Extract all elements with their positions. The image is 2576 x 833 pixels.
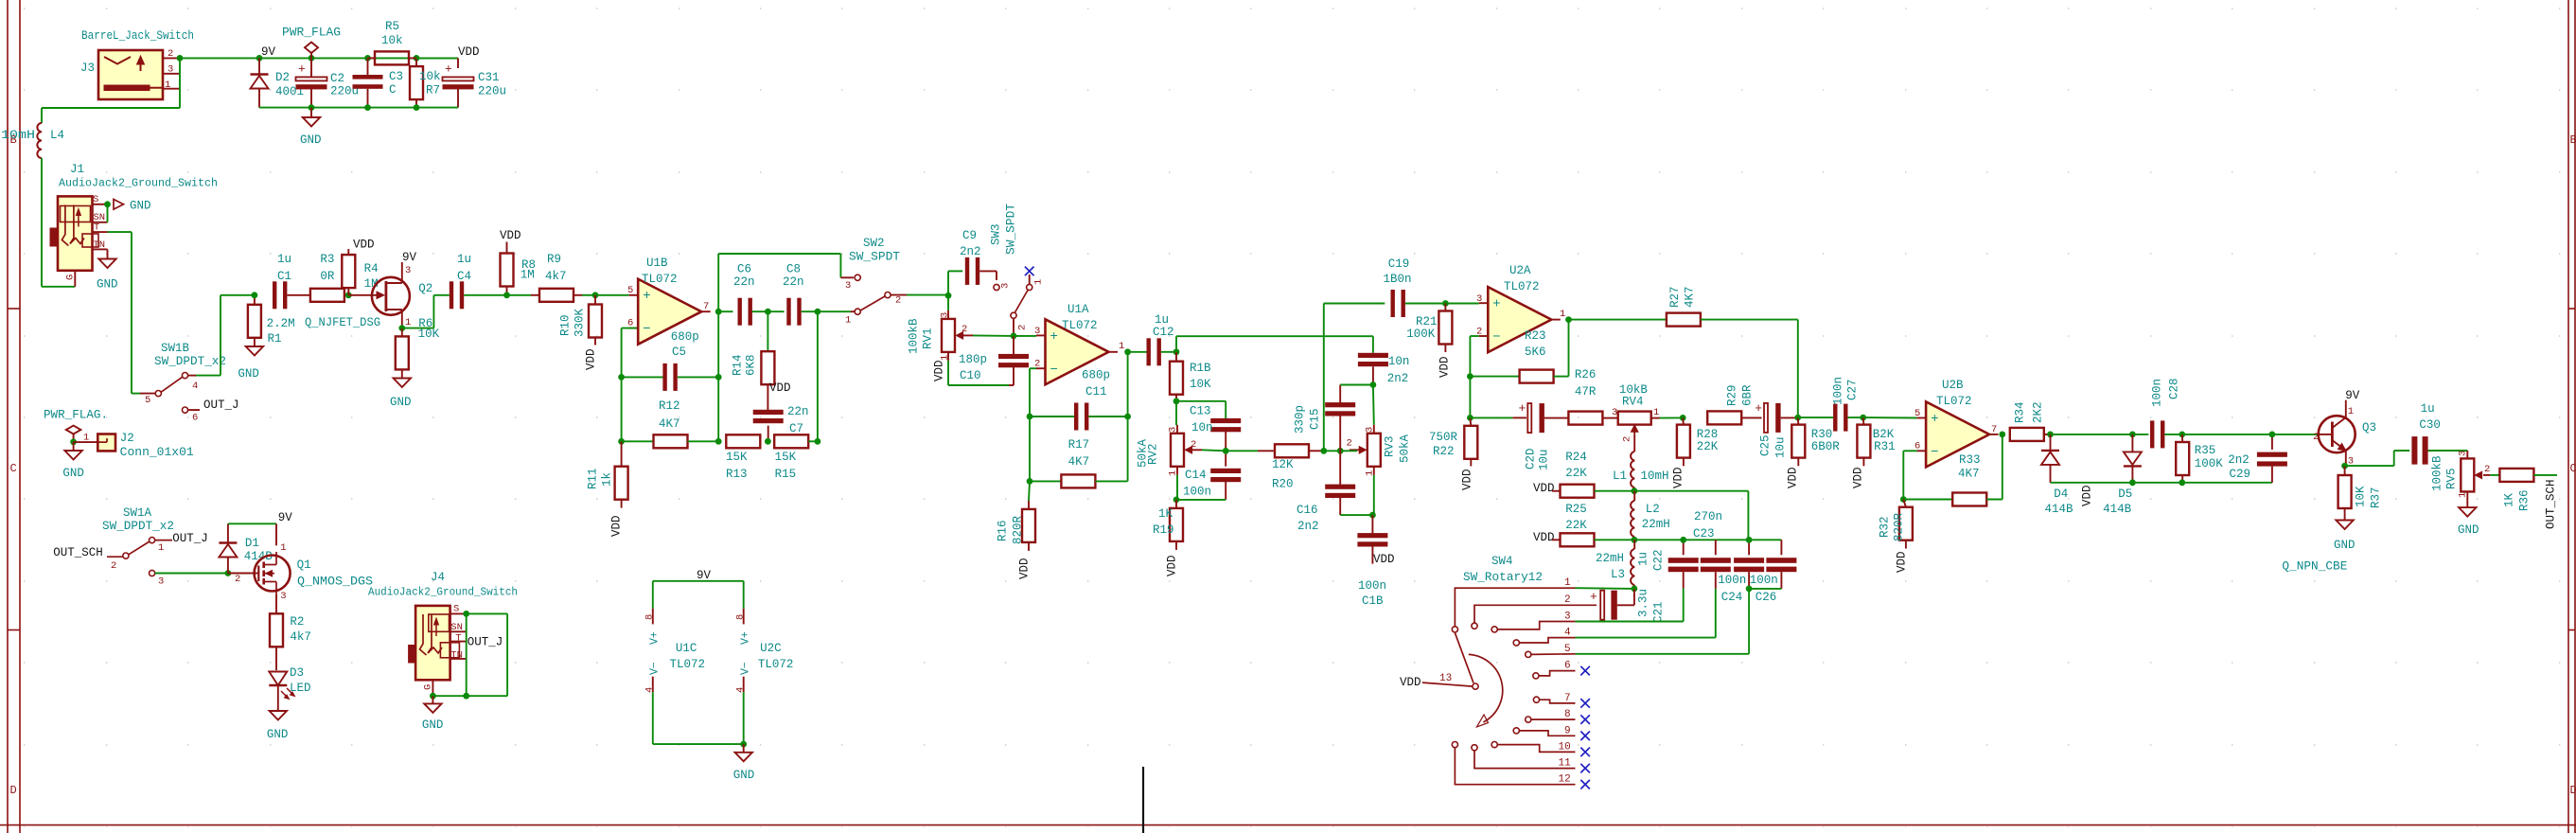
- junction R12 left: [618, 438, 625, 445]
- no-connect X at SW4 pin 10: [1580, 748, 1590, 757]
- svg-text:R28: R28: [1697, 428, 1719, 441]
- svg-text:4k7: 4k7: [545, 270, 567, 283]
- svg-text:SW_SPDT: SW_SPDT: [849, 251, 901, 264]
- svg-text:−: −: [643, 322, 650, 337]
- capacitor C18 100n: [1357, 515, 1387, 608]
- svg-text:C27: C27: [1846, 379, 1860, 400]
- ground symbol at RV5: [2458, 500, 2479, 538]
- svg-text:R15: R15: [775, 468, 797, 481]
- SW4 contact 12: [1452, 742, 1457, 748]
- J1 pin T: [93, 231, 108, 233]
- power unit U2C TL072: [735, 581, 794, 744]
- wire RV3 wiper from row: [1349, 450, 1357, 452]
- svg-text:U2B: U2B: [1942, 379, 1964, 392]
- svg-text:2: 2: [1622, 436, 1633, 442]
- svg-text:6BR: 6BR: [1741, 384, 1755, 406]
- J1 pin TN: [93, 248, 108, 250]
- svg-text:GND: GND: [97, 278, 118, 292]
- junction R33 left / R32: [1900, 496, 1907, 503]
- svg-text:+: +: [1590, 590, 1597, 604]
- wire RV1 wiper to junction: [973, 334, 1014, 337]
- svg-text:SW1A: SW1A: [123, 506, 152, 520]
- SW3 lever: [1015, 291, 1029, 313]
- svg-text:L2: L2: [1646, 503, 1660, 516]
- J1 pin G: [74, 271, 76, 287]
- svg-text:+: +: [1492, 297, 1500, 312]
- svg-text:2n2: 2n2: [1297, 520, 1319, 533]
- wire R27 to C25 node riser: [1797, 320, 1799, 418]
- svg-text:R31: R31: [1874, 440, 1896, 453]
- SW4 rotor lever: [1455, 633, 1473, 683]
- svg-text:+: +: [643, 289, 650, 304]
- svg-text:4: 4: [644, 687, 656, 693]
- wire C24 bottom to SW4 pin5 row: [1748, 589, 1750, 654]
- svg-text:1: 1: [2458, 492, 2469, 498]
- svg-text:220u: 220u: [478, 85, 506, 98]
- diode D3 LED: [269, 666, 310, 711]
- wire GND rail bottom of power section: [259, 107, 458, 109]
- svg-text:10: 10: [1559, 741, 1571, 753]
- junction J4 S: [463, 611, 469, 617]
- capacitor C31 220u: [443, 62, 507, 108]
- wire 9V rail top: [180, 57, 458, 59]
- svg-text:100K: 100K: [2195, 457, 2224, 470]
- svg-text:G: G: [423, 684, 434, 690]
- resistor R15 15K: [774, 434, 818, 481]
- svg-text:3: 3: [1365, 427, 1376, 433]
- svg-text:R4: R4: [364, 262, 379, 275]
- svg-text:SW3: SW3: [990, 223, 1003, 245]
- svg-text:V−: V−: [740, 662, 752, 675]
- svg-text:L3: L3: [1611, 568, 1625, 581]
- transistor Q1 Q_NMOS_DGS: [235, 542, 311, 602]
- svg-text:680p: 680p: [671, 330, 699, 344]
- svg-text:C24: C24: [1721, 591, 1743, 604]
- wire clipper bottom row to VDD: [2051, 482, 2182, 484]
- svg-text:VDD: VDD: [1400, 676, 1421, 689]
- wire node down to RV3 pin3: [1372, 385, 1375, 425]
- svg-text:VDD: VDD: [1533, 531, 1555, 544]
- capacitor C19 180n: [1384, 257, 1446, 317]
- wire C19 riser: [1323, 304, 1325, 452]
- svg-text:C: C: [2570, 462, 2576, 475]
- wire SW4 pin1 to L3 junction: [1576, 587, 1634, 590]
- svg-text:Q3: Q3: [2362, 421, 2376, 434]
- svg-text:22mH: 22mH: [1642, 518, 1670, 531]
- J4 pin TN: [450, 658, 467, 660]
- resistor R37 10K: [2338, 466, 2383, 520]
- svg-text:C7: C7: [789, 422, 803, 435]
- potentiometer RV2 50kA: [1137, 425, 1203, 476]
- svg-text:2: 2: [168, 48, 173, 60]
- junction L2 bottom / R25 row: [1632, 537, 1638, 543]
- junction J1 S pin: [104, 201, 111, 207]
- svg-text:12K: 12K: [1272, 458, 1294, 471]
- resistor R34 2K2: [2010, 401, 2051, 440]
- svg-text:22n: 22n: [787, 405, 809, 418]
- svg-text:VDD: VDD: [1672, 467, 1685, 488]
- svg-text:C8: C8: [786, 263, 801, 276]
- wire RV4 pin1 to R28 node: [1660, 416, 1684, 418]
- junction L1 bottom / R24: [1632, 487, 1638, 494]
- svg-text:PWR_FLAG: PWR_FLAG: [282, 27, 341, 40]
- svg-text:GND: GND: [2334, 539, 2355, 552]
- wire SW4 pin5 to C24/C26: [1576, 653, 1750, 655]
- wire D1 top to 9V: [228, 523, 276, 524]
- svg-text:C1B: C1B: [1362, 594, 1384, 608]
- resistor R33 4K7: [1903, 434, 2003, 506]
- J3 pin 1: [163, 88, 180, 90]
- junction J2 pin / flag / gnd: [70, 438, 77, 445]
- svg-text:C1: C1: [277, 270, 291, 283]
- junction U2A output: [1565, 316, 1572, 323]
- svg-text:U1C: U1C: [676, 642, 697, 655]
- svg-text:VDD: VDD: [1461, 469, 1474, 490]
- svg-text:1u: 1u: [277, 253, 291, 266]
- svg-text:4K7: 4K7: [1068, 455, 1090, 469]
- svg-text:GND: GND: [2458, 523, 2479, 537]
- svg-text:C28: C28: [2168, 378, 2181, 399]
- svg-text:C14: C14: [1185, 469, 1207, 482]
- feedback vertical wire U1B: [717, 254, 719, 441]
- Q2 drain pin to 9V: [401, 262, 403, 277]
- svg-text:3.3u: 3.3u: [1637, 589, 1650, 617]
- svg-text:5: 5: [145, 395, 150, 406]
- svg-text:10n: 10n: [1191, 421, 1213, 434]
- resistor R12 4K7: [622, 399, 719, 448]
- svg-text:1: 1: [1653, 407, 1659, 418]
- svg-text:D5: D5: [2118, 487, 2132, 501]
- J4 pin T: [450, 641, 467, 643]
- wire to SW2 pin1: [818, 310, 851, 312]
- svg-text:VDD: VDD: [1896, 551, 1909, 573]
- svg-text:3: 3: [158, 576, 164, 588]
- ground symbol at R1: [238, 346, 263, 381]
- wire VDD from R5/R7 junction: [416, 57, 458, 59]
- svg-text:12: 12: [1559, 774, 1571, 786]
- svg-text:R2: R2: [290, 615, 304, 629]
- svg-text:U1B: U1B: [646, 257, 668, 270]
- diode D4 4148: [2041, 434, 2073, 516]
- wire 9V top of power units: [653, 580, 744, 582]
- svg-text:C21: C21: [1652, 601, 1666, 623]
- svg-text:B2K: B2K: [1873, 428, 1895, 441]
- svg-text:OUT_SCH: OUT_SCH: [53, 546, 103, 559]
- junction U1A output: [1124, 348, 1131, 355]
- svg-text:180p: 180p: [959, 353, 987, 366]
- svg-text:R22: R22: [1433, 445, 1455, 458]
- junction 9V rail at D2: [256, 55, 263, 62]
- svg-text:SW_SPDT: SW_SPDT: [1005, 203, 1018, 255]
- svg-text:10K: 10K: [1190, 378, 1211, 391]
- junction R34 right / D4: [2047, 432, 2054, 438]
- resistor R17 4K7: [1030, 438, 1128, 487]
- svg-text:VDD: VDD: [2081, 485, 2094, 506]
- svg-text:VDD: VDD: [585, 348, 598, 370]
- svg-text:TL072: TL072: [1062, 319, 1098, 332]
- svg-text:6: 6: [192, 413, 198, 424]
- junction U1B output: [715, 309, 722, 315]
- svg-text:C16: C16: [1297, 504, 1318, 517]
- resistor R31 82K: [1857, 417, 1895, 466]
- svg-text:270n: 270n: [1694, 510, 1722, 523]
- no-connect X at SW4 pin 9: [1580, 732, 1590, 741]
- svg-text:C3: C3: [389, 70, 403, 83]
- resistor R5 10k: [368, 20, 417, 64]
- svg-text:50kA: 50kA: [1399, 434, 1412, 463]
- svg-text:TN: TN: [94, 239, 106, 251]
- no-connect X at SW4 pin 11: [1580, 764, 1590, 773]
- junction C15 vertical on wiper row: [1337, 448, 1344, 454]
- svg-text:D4: D4: [2054, 487, 2068, 501]
- svg-text:4K7: 4K7: [1958, 468, 1980, 481]
- capacitor C5 680p: [622, 330, 719, 391]
- junction C12 right / R18: [1173, 348, 1180, 355]
- capacitor C20 10u: [1470, 401, 1568, 470]
- svg-text:R20: R20: [1272, 478, 1294, 491]
- svg-text:Q2: Q2: [418, 282, 432, 295]
- wire C22 bottom to SW4 pin3 row: [1683, 589, 1685, 622]
- svg-text:U2C: U2C: [760, 642, 782, 655]
- capacitor C3 C: [353, 58, 404, 107]
- wire top feedback to SW2 pin3: [718, 253, 840, 255]
- junction C6/C8/R14: [765, 309, 771, 315]
- svg-text:2: 2: [962, 324, 967, 335]
- svg-text:820R: 820R: [1893, 512, 1906, 541]
- svg-text:10K: 10K: [2355, 486, 2368, 507]
- svg-text:−: −: [1492, 330, 1500, 346]
- switch SW1B SW_DPDT_x2: [140, 342, 226, 424]
- junction RV2 wiper node: [1223, 448, 1229, 454]
- wire U2A out row: [1569, 319, 1667, 321]
- svg-text:V+: V+: [649, 631, 662, 645]
- junction SW3 pin2 / RV1 wiper / U1A+ / C10: [1011, 333, 1017, 340]
- svg-text:820R: 820R: [1012, 515, 1025, 544]
- svg-text:VDD: VDD: [1787, 467, 1800, 488]
- svg-text:SN: SN: [450, 622, 463, 633]
- svg-text:R21: R21: [1416, 315, 1438, 328]
- wire U1A pin2 loop: [1030, 367, 1036, 369]
- svg-text:100n: 100n: [1358, 579, 1386, 593]
- svg-text:OUT_J: OUT_J: [172, 532, 208, 545]
- resistor R19 1K: [1153, 500, 1183, 550]
- svg-text:10u: 10u: [1774, 436, 1788, 458]
- svg-text:22n: 22n: [733, 275, 755, 289]
- svg-text:1u: 1u: [1637, 552, 1650, 566]
- resistor R9 4k7: [507, 253, 596, 302]
- resistor R6 10K: [396, 317, 440, 379]
- svg-text:TL072: TL072: [758, 658, 794, 671]
- SW4 selection arc with arrow: [1469, 654, 1503, 722]
- svg-text:10k: 10k: [419, 70, 441, 83]
- SW4 contact 3: [1491, 627, 1497, 632]
- svg-text:C29: C29: [2230, 468, 2251, 481]
- junction R35 bottom: [2179, 479, 2185, 486]
- junction C11 left: [1027, 414, 1033, 420]
- svg-text:4k7: 4k7: [290, 630, 311, 644]
- potentiometer RV5 100kB: [2431, 451, 2491, 500]
- svg-text:Conn_01x01: Conn_01x01: [120, 446, 194, 459]
- wire junction to U1A pin3: [1014, 335, 1036, 337]
- svg-text:VDD: VDD: [353, 239, 375, 252]
- svg-text:100n: 100n: [2151, 379, 2164, 407]
- power unit U1C TL072: [644, 581, 706, 744]
- svg-text:J3: J3: [80, 62, 95, 75]
- power flag PWR_FLAG (top): [282, 27, 341, 59]
- wire J3 pins to 9V rail: [179, 58, 181, 108]
- resistor R4 1M: [342, 249, 378, 295]
- svg-text:C5: C5: [672, 346, 686, 359]
- svg-text:22K: 22K: [1697, 440, 1719, 453]
- junction C20 row left: [1467, 415, 1473, 421]
- svg-text:RV2: RV2: [1147, 443, 1160, 465]
- capacitor C9 2n2: [948, 229, 997, 295]
- ground symbol at J2: [62, 442, 84, 480]
- capacitor C26 100n: [1749, 540, 1796, 604]
- SW2 lever: [860, 296, 885, 310]
- svg-text:C13: C13: [1190, 405, 1211, 418]
- svg-text:R14: R14: [732, 354, 745, 376]
- svg-text:R10: R10: [559, 314, 573, 336]
- capacitor C13 10n: [1190, 405, 1241, 435]
- svg-text:J1: J1: [70, 163, 84, 176]
- svg-text:+: +: [298, 62, 306, 77]
- J1 pin SN: [93, 222, 108, 223]
- junction R20 right / C19 branch: [1320, 448, 1327, 454]
- wire C23 bottom to SW4 pin4 row: [1715, 589, 1717, 638]
- resistor R30 680R: [1791, 417, 1840, 466]
- capacitor C10 180p: [959, 336, 1029, 385]
- wire SW1A pin3 to Q1 gate: [155, 573, 228, 575]
- svg-text:6B0R: 6B0R: [1811, 440, 1841, 453]
- diode D1 4148: [219, 523, 273, 573]
- SW4 contact 5: [1526, 651, 1531, 657]
- svg-text:V+: V+: [740, 631, 752, 645]
- svg-text:C4: C4: [457, 270, 471, 283]
- svg-text:9V: 9V: [2345, 389, 2360, 402]
- svg-text:RV4: RV4: [1622, 396, 1644, 409]
- svg-text:10n: 10n: [1388, 355, 1410, 368]
- svg-text:1: 1: [1564, 577, 1571, 589]
- svg-text:100kB: 100kB: [908, 318, 921, 354]
- Q2 source pin: [401, 315, 403, 328]
- svg-text:330K: 330K: [573, 308, 587, 337]
- svg-text:4: 4: [1564, 628, 1571, 639]
- resistor R24 22K: [1533, 451, 1634, 498]
- svg-text:11: 11: [1559, 758, 1572, 770]
- junction J3 pin2: [177, 55, 184, 62]
- svg-text:C31: C31: [478, 71, 500, 84]
- transistor Q3 Q_NPN_CBE: [2313, 404, 2376, 468]
- capacitor C8 22n: [783, 263, 818, 326]
- svg-text:1: 1: [158, 542, 164, 554]
- svg-text:414B: 414B: [2045, 503, 2074, 516]
- wire bottom of power units: [653, 743, 744, 745]
- svg-text:Q_NJFET_DSG: Q_NJFET_DSG: [305, 316, 380, 329]
- svg-text:R33: R33: [1959, 453, 1981, 467]
- svg-text:R5: R5: [385, 20, 399, 33]
- svg-text:7: 7: [1564, 693, 1571, 704]
- wire J1 T to SW1B common: [108, 231, 132, 233]
- svg-text:R7: R7: [426, 84, 440, 97]
- svg-text:8: 8: [644, 614, 656, 620]
- svg-text:RV5: RV5: [2445, 468, 2459, 489]
- svg-text:C23: C23: [1693, 527, 1715, 541]
- svg-text:TL072: TL072: [1504, 280, 1540, 293]
- svg-text:6K8: 6K8: [745, 354, 758, 376]
- capacitor C2 220u: [296, 58, 360, 107]
- capacitor C21 3.3u: [1590, 589, 1666, 623]
- svg-text:4K7: 4K7: [1684, 286, 1697, 308]
- svg-text:VDD: VDD: [933, 360, 946, 381]
- capacitor C15 330p: [1294, 402, 1356, 451]
- svg-text:+: +: [445, 62, 452, 77]
- svg-text:1: 1: [1560, 309, 1565, 320]
- svg-text:100kB: 100kB: [2431, 455, 2444, 491]
- junction C24 bottom: [1746, 586, 1753, 593]
- svg-text:−: −: [1931, 445, 1938, 460]
- switch SW2 SW_SPDT: [840, 237, 907, 327]
- svg-text:3: 3: [1564, 611, 1571, 623]
- svg-text:PWR_FLAG.: PWR_FLAG.: [44, 409, 108, 422]
- junction RV3 pin1 / C16 / C18: [1369, 512, 1376, 519]
- SW4 contact 9: [1513, 728, 1519, 734]
- connector J3 Barrel_Jack_Switch: [80, 29, 194, 99]
- resistor R2 4k7: [270, 594, 311, 670]
- svg-text:GND: GND: [422, 718, 444, 732]
- SW1A pin 1: [150, 538, 155, 543]
- wire J4 S loop: [467, 612, 507, 614]
- SW2 pin 3: [840, 276, 854, 278]
- SW1A pin 2: [123, 553, 129, 558]
- wire to U2A pin3: [1445, 303, 1478, 305]
- capacitor C23 270n: [1693, 510, 1731, 589]
- svg-text:RV1: RV1: [922, 328, 935, 349]
- no-connect X at SW4 pin 6: [1580, 666, 1590, 676]
- svg-text:L4: L4: [50, 129, 64, 142]
- svg-text:R24: R24: [1565, 451, 1587, 464]
- svg-text:R19: R19: [1153, 523, 1174, 537]
- svg-text:3: 3: [2458, 451, 2469, 456]
- svg-text:R26: R26: [1575, 368, 1597, 381]
- ground symbol at J4: [422, 696, 444, 732]
- svg-text:1M: 1M: [520, 269, 535, 282]
- svg-text:C22: C22: [1652, 549, 1666, 571]
- svg-text:OUT_J: OUT_J: [468, 636, 503, 649]
- svg-text:G: G: [65, 275, 77, 280]
- junction RV1 top node: [945, 292, 952, 299]
- svg-text:C26: C26: [1756, 591, 1777, 604]
- junction U2B output: [1999, 432, 2005, 438]
- switch SW1A SW_DPDT_x2: [53, 506, 208, 588]
- potentiometer RV3 50kA: [1347, 425, 1412, 476]
- junction C27 right / R31: [1860, 415, 1866, 421]
- svg-text:S: S: [93, 194, 98, 205]
- op-amp U2A TL072: [1476, 264, 1565, 352]
- svg-text:3: 3: [1476, 293, 1482, 305]
- junction 9V rail at C3: [364, 55, 371, 62]
- svg-text:U2A: U2A: [1509, 264, 1531, 277]
- wire C13 to wiper junction: [1225, 432, 1226, 467]
- SW1A lever: [129, 541, 150, 555]
- svg-text:1: 1: [1119, 341, 1124, 352]
- SW4 contact 2: [1472, 623, 1477, 629]
- svg-text:C: C: [10, 462, 17, 475]
- svg-text:2: 2: [2484, 464, 2490, 475]
- svg-text:1u: 1u: [1155, 313, 1169, 327]
- svg-text:2: 2: [1017, 325, 1029, 330]
- svg-text:TL072: TL072: [670, 658, 706, 671]
